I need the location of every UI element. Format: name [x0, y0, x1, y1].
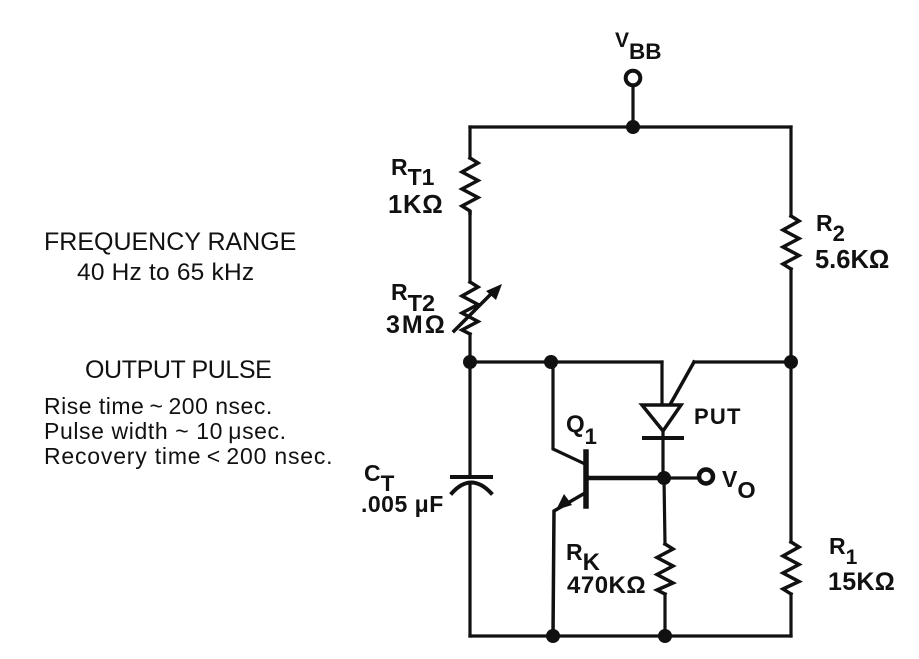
- svg-text:R1: R1: [829, 533, 858, 569]
- transistor Q1 collector wire: [553, 362, 585, 464]
- svg-text:R2: R2: [816, 210, 845, 246]
- node dot right mid: [784, 355, 798, 369]
- wire RK bottom lead: [663, 594, 666, 636]
- wire Q1 base to VO node: [586, 476, 664, 481]
- svg-text:PUT: PUT: [694, 404, 742, 429]
- svg-text:OUTPUT PULSE: OUTPUT PULSE: [85, 356, 271, 384]
- wire arrow of RT2: [454, 293, 492, 331]
- wire R1 bottom lead: [789, 594, 792, 636]
- node dot Q1 collector tap: [544, 355, 558, 369]
- wire capacitor bottom lead: [468, 486, 471, 636]
- svg-text:FREQUENCY RANGE: FREQUENCY RANGE: [44, 228, 296, 256]
- resistor R1: [783, 542, 799, 594]
- wire R2 top lead: [789, 127, 792, 216]
- wire RT1 to RT2: [468, 213, 471, 282]
- wire R1 top lead: [789, 362, 792, 542]
- PUT anode triangle: [642, 405, 681, 431]
- node dot VO: [657, 471, 671, 485]
- svg-text:.005 μF: .005 μF: [361, 491, 444, 517]
- svg-text:VO: VO: [722, 466, 756, 503]
- wire mid horizontal: [470, 360, 662, 363]
- node VBB junction dot: [626, 120, 640, 134]
- svg-text:Recovery time < 200 nsec.: Recovery time < 200 nsec.: [44, 443, 333, 469]
- svg-text:5.6KΩ: 5.6KΩ: [815, 246, 889, 274]
- transistor Q1 emitter arrowhead: [556, 494, 572, 510]
- svg-text:RT1: RT1: [391, 154, 435, 190]
- wire RK top lead: [664, 478, 665, 544]
- transistor Q1 base bar: [583, 452, 589, 506]
- wire top horizontal: [470, 125, 791, 128]
- svg-text:RK: RK: [566, 539, 601, 576]
- wire capacitor top lead: [468, 362, 471, 475]
- svg-text:15KΩ: 15KΩ: [828, 568, 895, 596]
- node VBB terminal circle: [626, 71, 641, 86]
- svg-text:3MΩ: 3MΩ: [386, 311, 447, 339]
- wire PUT cathode lead: [661, 431, 664, 478]
- wire bottom horizontal: [470, 634, 791, 637]
- wire R2 bottom lead: [789, 269, 792, 362]
- arrowhead of RT2: [486, 284, 502, 300]
- wire left column top lead: [468, 127, 471, 158]
- svg-text:Rise time ~ 200 nsec.: Rise time ~ 200 nsec.: [44, 393, 273, 419]
- node dot bottom RK: [658, 629, 672, 643]
- capacitor CT top plate: [452, 475, 491, 479]
- wire RT2 to mid node: [468, 334, 471, 362]
- wire VBB stem: [631, 87, 634, 124]
- wire PUT anode drop: [660, 362, 663, 404]
- svg-text:Pulse width ~ 10 μsec.: Pulse width ~ 10 μsec.: [44, 418, 287, 444]
- resistor RT1: [462, 158, 478, 213]
- svg-text:Q1: Q1: [566, 411, 597, 449]
- transistor Q1 emitter wire: [553, 493, 585, 636]
- resistor RT2 (variable): [462, 282, 478, 334]
- node dot left mid: [463, 355, 477, 369]
- PUT cathode bar: [644, 436, 682, 440]
- svg-text:1KΩ: 1KΩ: [388, 191, 443, 219]
- capacitor CT bottom curved plate: [452, 483, 491, 494]
- svg-text:470KΩ: 470KΩ: [567, 572, 646, 599]
- svg-text:40 Hz to 65 kHz: 40 Hz to 65 kHz: [77, 259, 254, 286]
- resistor R2: [783, 216, 799, 269]
- wire mid horizontal right segment: [694, 360, 791, 363]
- node dot bottom emitter: [546, 629, 560, 643]
- svg-text:VBB: VBB: [615, 29, 662, 64]
- wire PUT gate diagonal: [671, 362, 694, 403]
- wire VO lead: [664, 476, 696, 479]
- resistor RK: [657, 544, 673, 594]
- node VO terminal circle: [699, 470, 713, 484]
